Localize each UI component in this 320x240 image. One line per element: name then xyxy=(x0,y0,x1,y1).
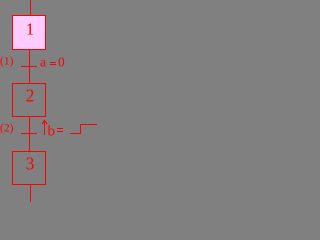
wire: top rail into step 1 xyxy=(30,0,31,16)
step 3 xyxy=(13,152,46,185)
transition bar (1) xyxy=(21,66,37,67)
svg-text:(2): (2) xyxy=(0,123,14,135)
svg-text:a: a xyxy=(40,56,47,71)
step 2 xyxy=(13,84,46,117)
svg-text:2: 2 xyxy=(26,86,35,106)
rising-edge pulse symbol xyxy=(70,125,97,134)
rising-edge arrow of condition xyxy=(44,121,45,135)
svg-text:b: b xyxy=(48,124,56,140)
svg-text:(1): (1) xyxy=(0,56,14,68)
svg-text:1: 1 xyxy=(26,20,34,39)
step 1 (initial step, active, pink fill) xyxy=(13,16,46,50)
transition bar (2) xyxy=(21,133,37,134)
svg-text:0: 0 xyxy=(58,55,65,70)
wire: step 3 to bottom edge xyxy=(30,184,31,202)
wire: step 1 to step 2 xyxy=(29,49,30,84)
wire: step 2 to step 3 xyxy=(29,116,30,152)
svg-text:3: 3 xyxy=(26,154,35,174)
